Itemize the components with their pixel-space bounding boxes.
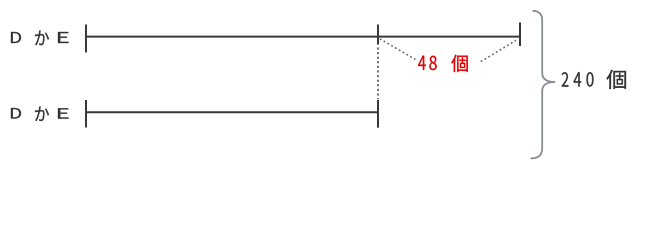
bottom bar left end tick (85, 100, 87, 128)
label "D" (bottom row) (11, 108, 21, 118)
dotted leader from middle tick to "48個" (380, 39, 416, 60)
bottom bar right end tick (377, 100, 379, 128)
label "か" (bottom row) (35, 106, 49, 120)
value label "4" (red 48個) (418, 56, 426, 70)
top segment bar (86, 36, 521, 38)
top bar right end tick (519, 23, 521, 47)
value label "8" (red 48個) (429, 56, 436, 70)
top bar left end tick (85, 25, 87, 53)
total label "0" (240個) (586, 72, 593, 86)
label "E" (bottom row) (58, 108, 69, 118)
label "か" (top row) (35, 30, 49, 45)
label "D" (top row) (11, 32, 21, 43)
total label "4" (240個) (574, 72, 581, 86)
dotted leader from "48個" to right end tick (481, 40, 516, 61)
dotted vertical drop from middle tick to bottom bar right end (377, 48, 379, 100)
total label "2" (240個) (562, 72, 569, 86)
value label "個" (red 48個) (451, 55, 467, 72)
total label "個" (240個) (607, 70, 627, 89)
curly brace grouping both bars (total 240個) (531, 11, 555, 159)
label "E" (top row) (58, 32, 69, 43)
top bar middle tick (boundary at 48個) (377, 25, 379, 45)
bottom segment bar (86, 111, 379, 113)
